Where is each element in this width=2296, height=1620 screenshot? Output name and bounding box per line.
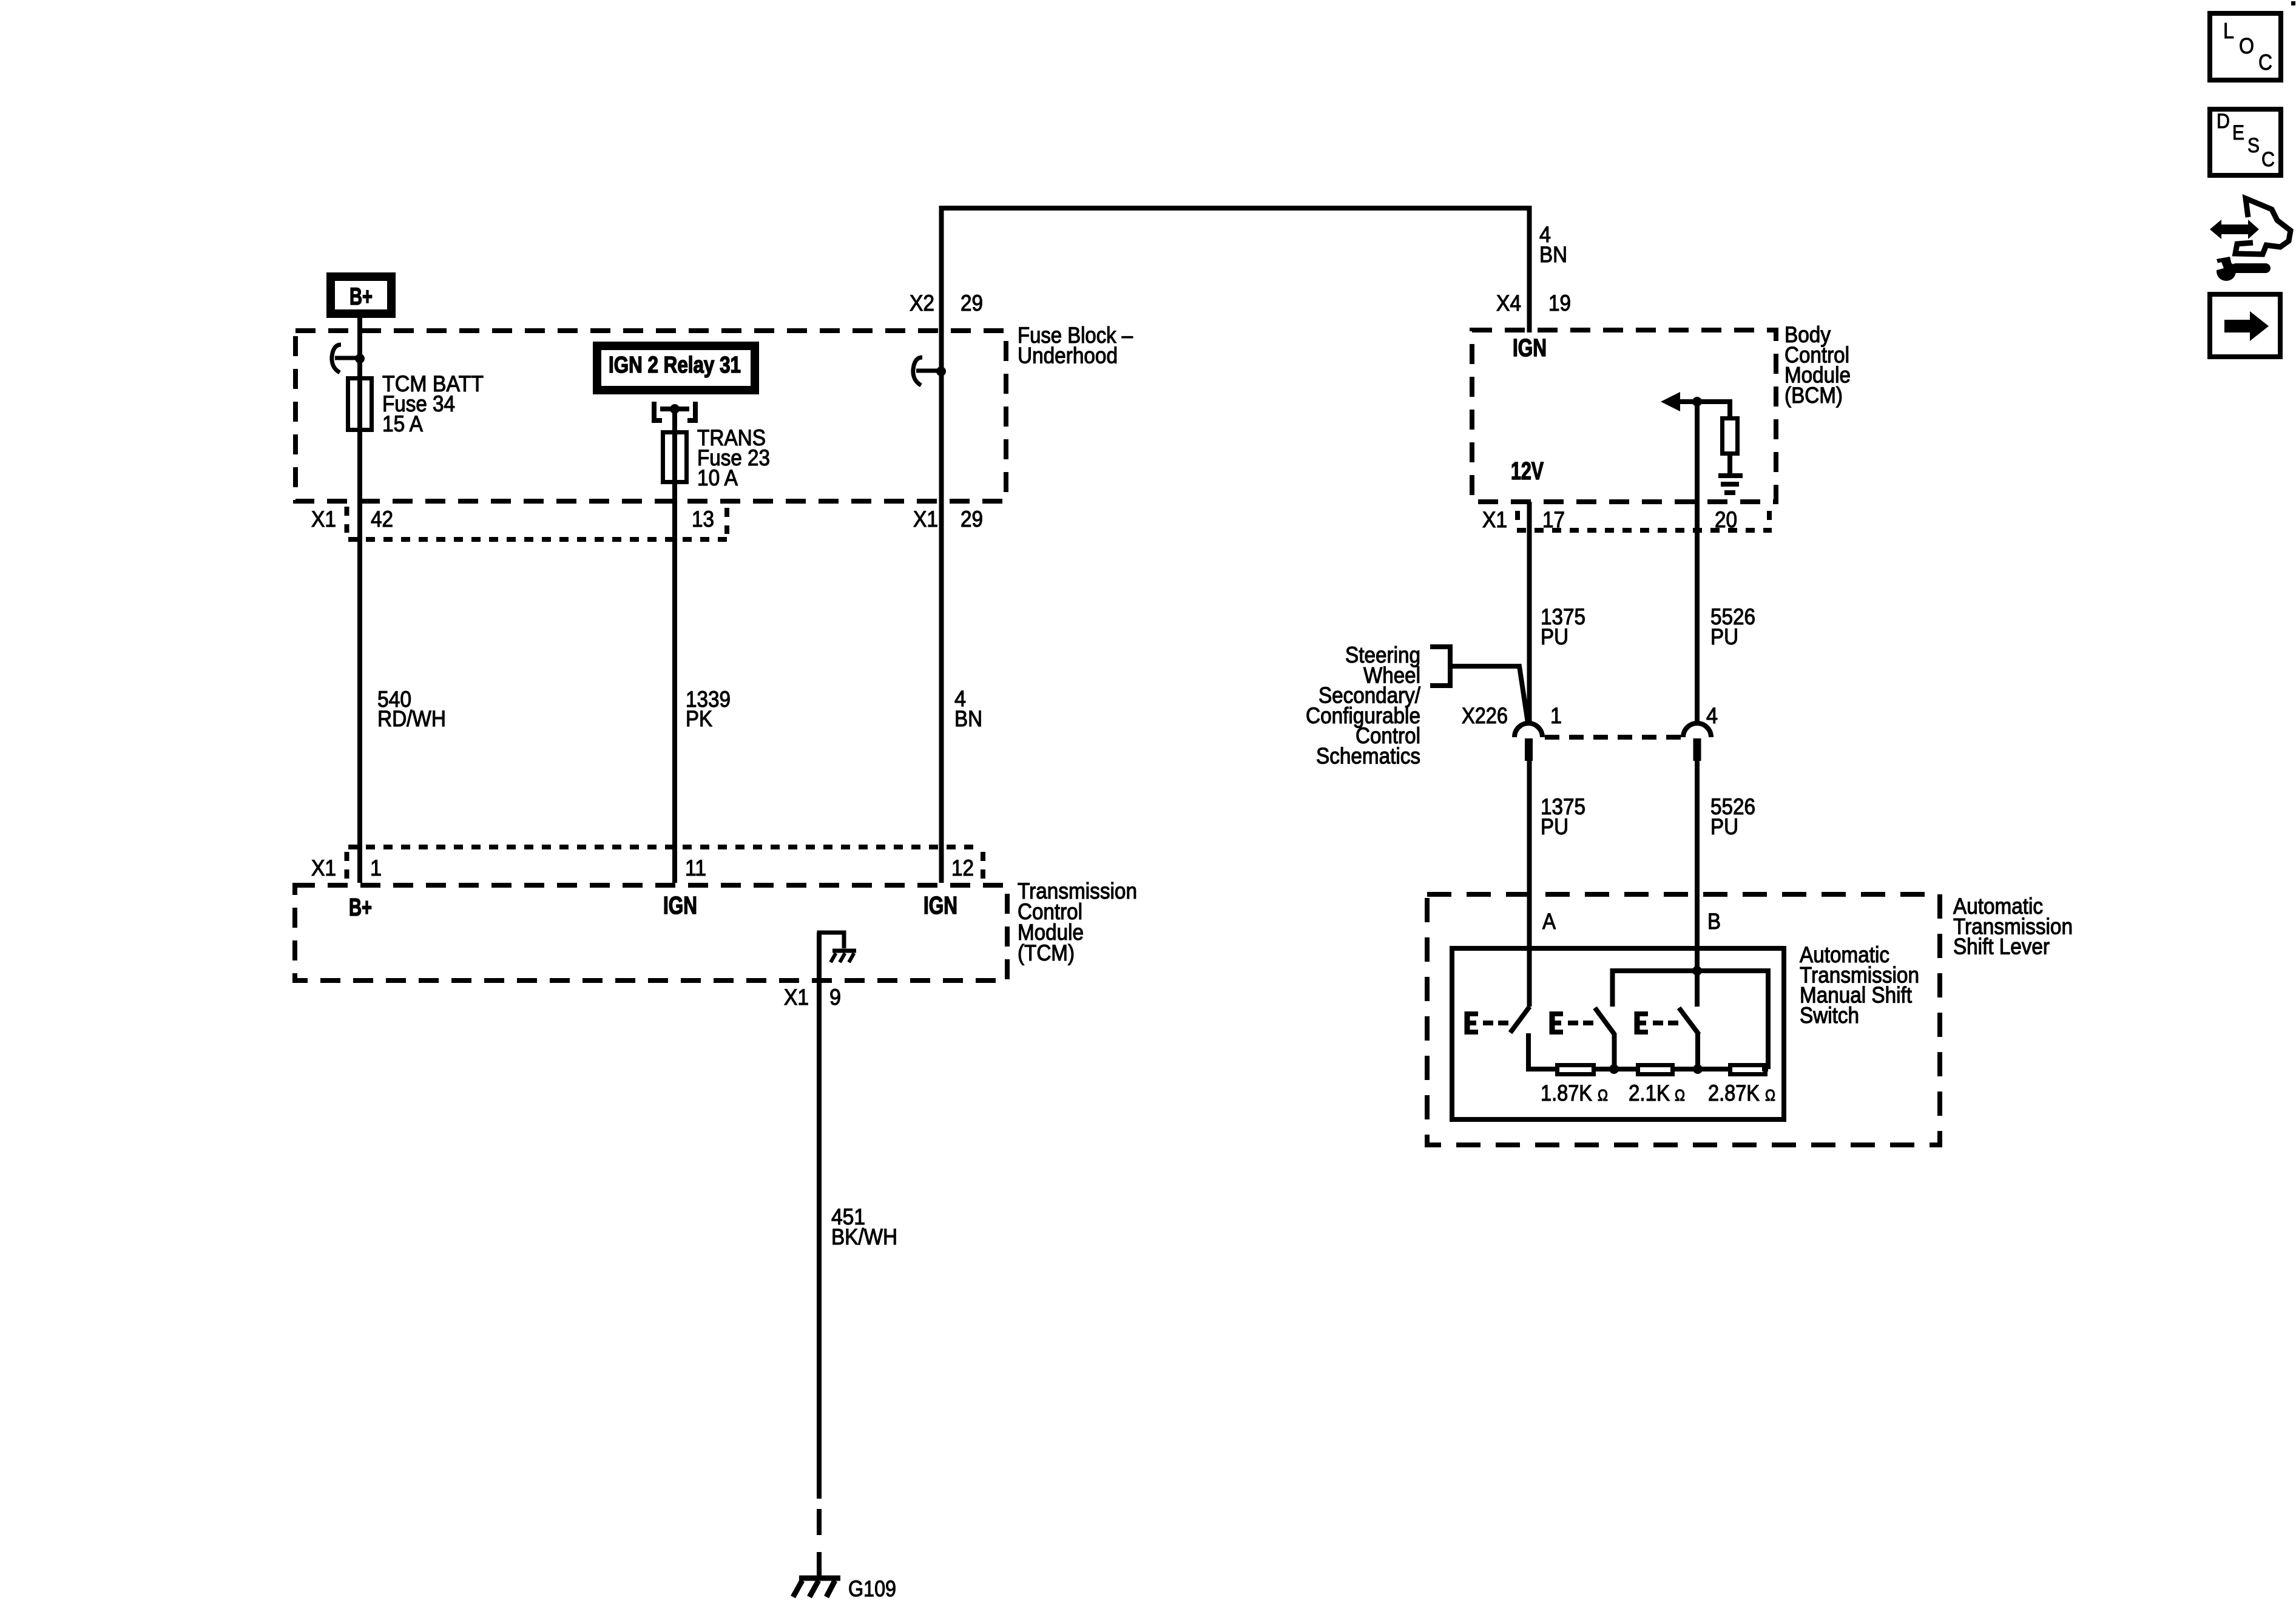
svg-text:B+: B+ bbox=[349, 893, 372, 921]
svg-text:42: 42 bbox=[371, 507, 393, 532]
svg-text:12V: 12V bbox=[1511, 457, 1544, 485]
svg-text:B: B bbox=[1707, 909, 1721, 934]
svg-text:X4: X4 bbox=[1496, 291, 1521, 316]
svg-text:IGN: IGN bbox=[663, 891, 697, 919]
svg-text:Switch: Switch bbox=[1800, 1003, 1859, 1028]
svg-text:20: 20 bbox=[1715, 507, 1737, 532]
svg-text:A: A bbox=[1542, 909, 1556, 934]
svg-text:2.1K: 2.1K bbox=[1629, 1081, 1670, 1105]
svg-text:L: L bbox=[2223, 18, 2234, 43]
svg-text:15 A: 15 A bbox=[382, 411, 423, 436]
svg-text:E: E bbox=[2232, 121, 2244, 144]
svg-text:X1: X1 bbox=[913, 507, 938, 532]
svg-text:X1: X1 bbox=[784, 985, 809, 1010]
svg-text:2.87K: 2.87K bbox=[1708, 1081, 1760, 1105]
svg-text:B+: B+ bbox=[349, 283, 373, 310]
svg-text:19: 19 bbox=[1548, 291, 1571, 316]
svg-text:PU: PU bbox=[1541, 814, 1568, 839]
svg-text:X1: X1 bbox=[1482, 507, 1507, 532]
svg-text:IGN: IGN bbox=[923, 891, 957, 919]
svg-text:O: O bbox=[2239, 33, 2254, 58]
svg-text:Ω: Ω bbox=[1675, 1086, 1685, 1104]
svg-text:(TCM): (TCM) bbox=[1018, 940, 1075, 965]
svg-text:Shift Lever: Shift Lever bbox=[1953, 934, 2050, 959]
svg-text:BN: BN bbox=[1539, 242, 1567, 267]
svg-text:G109: G109 bbox=[848, 1576, 896, 1601]
svg-text:(BCM): (BCM) bbox=[1784, 383, 1843, 408]
svg-text:29: 29 bbox=[961, 507, 983, 532]
svg-text:RD/WH: RD/WH bbox=[377, 706, 446, 731]
svg-text:X1: X1 bbox=[311, 507, 336, 532]
svg-text:D: D bbox=[2217, 110, 2230, 133]
svg-text:C: C bbox=[2258, 50, 2272, 75]
svg-text:9: 9 bbox=[829, 985, 841, 1010]
svg-text:17: 17 bbox=[1542, 507, 1565, 532]
svg-text:S: S bbox=[2247, 134, 2260, 157]
svg-text:IGN: IGN bbox=[1513, 334, 1547, 362]
svg-text:11: 11 bbox=[685, 856, 706, 880]
svg-text:PU: PU bbox=[1710, 624, 1738, 649]
svg-text:1: 1 bbox=[1550, 703, 1562, 728]
svg-text:Schematics: Schematics bbox=[1316, 744, 1420, 769]
svg-text:C: C bbox=[2261, 148, 2275, 171]
svg-text:X226: X226 bbox=[1462, 703, 1508, 728]
svg-text:X1: X1 bbox=[311, 856, 336, 880]
svg-text:1.87K: 1.87K bbox=[1541, 1081, 1592, 1105]
svg-text:12: 12 bbox=[951, 856, 974, 880]
svg-text:BK/WH: BK/WH bbox=[831, 1224, 897, 1249]
svg-text:13: 13 bbox=[692, 507, 714, 532]
svg-text:PU: PU bbox=[1541, 624, 1568, 649]
svg-text:1: 1 bbox=[370, 856, 382, 880]
svg-text:Ω: Ω bbox=[1598, 1086, 1608, 1104]
svg-text:PU: PU bbox=[1710, 814, 1738, 839]
svg-text:X2: X2 bbox=[910, 291, 934, 316]
svg-text:29: 29 bbox=[961, 291, 983, 316]
svg-text:BN: BN bbox=[954, 706, 982, 731]
svg-text:Underhood: Underhood bbox=[1018, 343, 1118, 368]
svg-text:4: 4 bbox=[1706, 703, 1718, 728]
svg-text:IGN 2 Relay 31: IGN 2 Relay 31 bbox=[609, 353, 741, 378]
svg-text:10 A: 10 A bbox=[697, 465, 738, 490]
svg-text:PK: PK bbox=[686, 706, 712, 731]
svg-text:Ω: Ω bbox=[1765, 1086, 1775, 1104]
